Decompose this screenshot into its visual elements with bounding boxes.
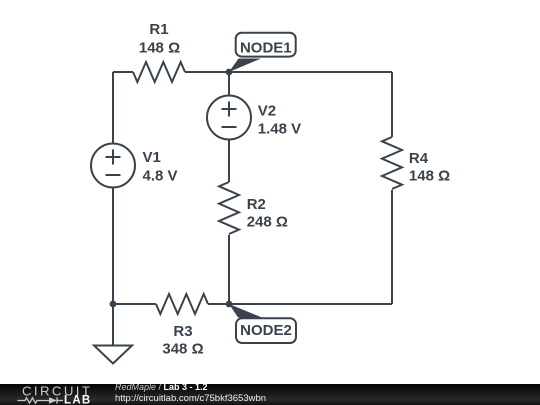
svg-text:R4: R4 — [409, 150, 429, 167]
resistor R4 — [382, 137, 402, 189]
svg-text:348 Ω: 348 Ω — [162, 340, 203, 357]
svg-text:V1: V1 — [143, 149, 161, 166]
svg-text:R3: R3 — [173, 323, 192, 340]
wire R2 to bottom — [228, 235, 230, 304]
wire bottom-left — [113, 303, 156, 305]
node NODE1 tail — [229, 59, 261, 73]
wire right rail upper — [391, 72, 393, 137]
svg-text:1.48 V: 1.48 V — [258, 120, 301, 137]
node NODE2 tail — [229, 304, 262, 318]
resistor R2 — [219, 182, 239, 234]
svg-text:148 Ω: 148 Ω — [139, 39, 180, 56]
resistor R1 — [133, 62, 185, 82]
svg-text:4.8 V: 4.8 V — [143, 167, 178, 184]
wire right rail lower — [391, 190, 393, 304]
wire left rail lower — [112, 188, 114, 305]
svg-text:NODE1: NODE1 — [240, 40, 292, 57]
svg-text:V2: V2 — [258, 103, 276, 120]
ground — [112, 304, 114, 346]
node dot NODE2 — [226, 301, 233, 308]
svg-text:148 Ω: 148 Ω — [409, 168, 450, 185]
node NODE1 label — [236, 33, 296, 57]
logo symbol diode — [49, 397, 57, 404]
svg-text:248 Ω: 248 Ω — [247, 214, 288, 231]
svg-text:R2: R2 — [247, 196, 266, 213]
voltage source V1 — [91, 144, 135, 188]
voltage source V2 — [207, 96, 251, 140]
logo symbol wire — [18, 397, 64, 403]
wire middle upper — [228, 72, 230, 96]
wire left rail upper — [112, 72, 114, 144]
svg-text:R1: R1 — [149, 21, 168, 38]
wire V2 to R2 — [228, 140, 230, 183]
wire bottom from R3 to right rail — [208, 303, 392, 305]
resistor R3 — [156, 294, 208, 314]
wire top-left lead — [113, 71, 133, 73]
svg-text:LAB: LAB — [64, 395, 92, 405]
svg-text:http://circuitlab.com/c75bkf36: http://circuitlab.com/c75bkf3653wbn — [115, 393, 266, 404]
node NODE2 label — [236, 318, 296, 343]
node dot bottom-left — [110, 301, 117, 308]
svg-text:RedMaple / Lab 3 - 1.2: RedMaple / Lab 3 - 1.2 — [115, 384, 208, 392]
svg-text:NODE2: NODE2 — [240, 322, 292, 339]
footer bar — [0, 384, 540, 405]
node dot NODE1 — [226, 69, 233, 76]
wire top from R1 to right rail — [185, 71, 392, 73]
